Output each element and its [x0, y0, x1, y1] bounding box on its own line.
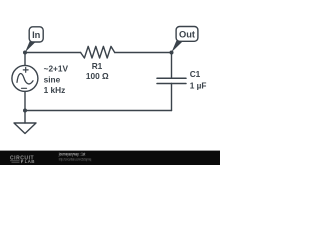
svg-text:In: In [32, 30, 41, 40]
svg-text:100 Ω: 100 Ω [86, 71, 109, 81]
svg-text:Out: Out [179, 29, 195, 39]
svg-text:http://circuitlab.com/c62lqmkq: http://circuitlab.com/c62lqmkq [59, 156, 92, 161]
svg-text:LAB: LAB [25, 159, 36, 164]
svg-text:C1: C1 [190, 69, 201, 79]
svg-text:R1: R1 [92, 61, 103, 71]
svg-text:sine: sine [44, 74, 61, 84]
svg-text:1 µF: 1 µF [190, 80, 207, 90]
svg-text:1 kHz: 1 kHz [44, 85, 66, 95]
svg-text:~2+1V: ~2+1V [44, 64, 69, 74]
